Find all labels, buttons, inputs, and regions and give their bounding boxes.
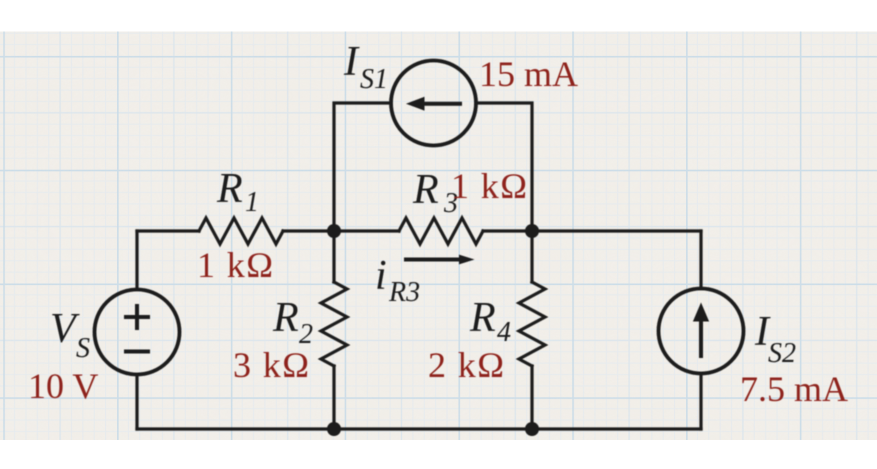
voltage source VS circle (95, 290, 180, 375)
junction bottom right node (525, 422, 539, 436)
IS2 arrow (pointing up) (693, 303, 709, 359)
svg-text:1 kΩ: 1 kΩ (451, 166, 528, 206)
wire IS1 to node B down (476, 103, 532, 231)
VS plus sign (124, 304, 150, 330)
bottom wire (137, 427, 701, 430)
svg-text:R: R (469, 295, 496, 341)
VS minus sign (124, 350, 150, 354)
svg-text:i: i (375, 253, 387, 299)
wire node B down to R4 (530, 231, 533, 282)
svg-text:1 kΩ: 1 kΩ (197, 245, 274, 285)
svg-text:15 mA: 15 mA (479, 54, 578, 94)
wire node A up and to current source IS1 (334, 103, 391, 231)
resistor R1 zigzag (199, 218, 283, 244)
svg-text:S: S (76, 333, 90, 364)
svg-text:2 kΩ: 2 kΩ (428, 345, 505, 385)
resistor R4 zigzag (519, 282, 545, 366)
svg-text:4: 4 (497, 317, 511, 348)
i_R3 current arrow (pointing right) (404, 255, 475, 265)
junction node A (327, 224, 341, 238)
wire node A to R3 (334, 229, 399, 232)
svg-text:R: R (412, 167, 439, 213)
wire R3 to node B (483, 229, 532, 232)
wire left rail top (135, 231, 138, 290)
svg-text:1: 1 (245, 187, 259, 218)
wire node B to right rail (532, 229, 701, 232)
svg-text:7.5 mA: 7.5 mA (740, 369, 848, 409)
svg-text:R3: R3 (388, 277, 420, 308)
wire middle-left from left rail to R1 (137, 229, 199, 232)
wire R1 to node A (283, 229, 334, 232)
svg-text:R: R (272, 295, 299, 341)
svg-text:R: R (216, 166, 243, 212)
wire R2 to bottom (332, 366, 335, 429)
IS1 arrow (pointing left) (406, 97, 462, 111)
junction bottom left node (327, 422, 341, 436)
svg-text:S2: S2 (768, 338, 796, 369)
wire R4 to bottom (530, 366, 533, 429)
resistor R2 zigzag (321, 282, 347, 366)
junction node B (525, 224, 539, 238)
svg-text:S1: S1 (360, 64, 388, 95)
svg-text:I: I (343, 39, 360, 85)
svg-text:10 V: 10 V (28, 366, 98, 406)
resistor R3 zigzag (399, 218, 483, 244)
svg-text:3 kΩ: 3 kΩ (233, 345, 310, 385)
current source IS1 circle (391, 61, 476, 146)
wire right rail top (699, 231, 702, 289)
wire node A down to R2 (332, 231, 335, 282)
wire left rail bottom (135, 375, 138, 430)
current source IS2 circle (659, 289, 744, 374)
wire right rail bottom (699, 374, 702, 430)
